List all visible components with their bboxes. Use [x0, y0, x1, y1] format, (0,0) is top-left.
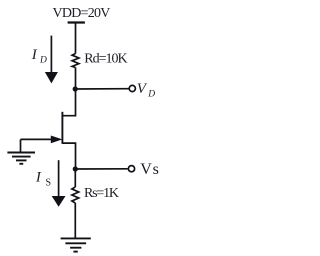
svg-text:Vs: Vs	[140, 161, 159, 178]
current arrow I_S line	[58, 160, 60, 198]
svg-text:I: I	[35, 169, 42, 185]
terminal Vs circle	[128, 166, 134, 172]
node drain junction	[73, 86, 78, 91]
svg-text:VDD=20V: VDD=20V	[53, 6, 111, 21]
transistor Q1 channel bar	[61, 112, 63, 144]
wire source node to Vs terminal	[75, 168, 128, 170]
current arrow I_S head	[52, 196, 66, 207]
ground bottom bars	[61, 237, 91, 239]
svg-text:I: I	[31, 47, 38, 63]
current arrow I_D line	[50, 36, 52, 74]
transistor Q1 gate wire	[21, 138, 57, 140]
transistor Q1 drain lead	[62, 89, 75, 116]
transistor Q1 source lead	[62, 143, 75, 169]
transistor Q1 gate arrowhead	[51, 136, 63, 144]
current arrow I_D head	[45, 72, 58, 83]
ground left (gate) stub	[20, 139, 22, 152]
svg-text:Rd=10K: Rd=10K	[84, 51, 127, 66]
ground left bars	[7, 152, 35, 154]
wire Rs bottom to ground	[74, 203, 76, 238]
terminal VD circle	[129, 85, 135, 91]
power rail VDD bar	[68, 21, 85, 23]
resistor Rs	[72, 187, 79, 203]
svg-text:Rs=1K: Rs=1K	[84, 186, 119, 201]
node source junction	[73, 166, 78, 171]
wire source node to Rs top	[74, 169, 76, 187]
svg-text:D: D	[39, 56, 47, 66]
wire VDD bar to Rd top	[75, 23, 77, 54]
resistor Rd	[72, 54, 79, 68]
svg-text:D: D	[147, 90, 155, 100]
svg-text:S: S	[46, 177, 52, 188]
wire Rd bottom to drain node	[75, 68, 77, 90]
wire drain node to VD terminal	[75, 88, 128, 90]
